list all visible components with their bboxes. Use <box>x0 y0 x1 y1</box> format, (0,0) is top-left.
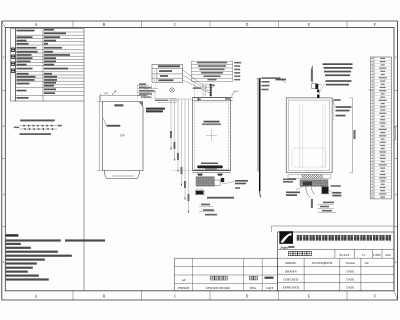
svg-text:TOP: TOP <box>119 134 125 138</box>
svg-text:D: D <box>246 295 249 299</box>
svg-text:REVISION RECORD: REVISION RECORD <box>206 287 230 290</box>
svg-text:1:1: 1:1 <box>361 253 365 257</box>
svg-text:Jingtai: Jingtai <box>280 245 289 249</box>
svg-text:DATE: DATE <box>346 286 354 290</box>
svg-text:D: D <box>246 23 249 27</box>
svg-text:DRAWN: DRAWN <box>285 269 297 273</box>
svg-text:DATE: DATE <box>346 269 354 273</box>
svg-text:JTG035Q8007D: JTG035Q8007D <box>312 261 333 265</box>
svg-text:R0.5: R0.5 <box>234 91 239 93</box>
svg-text:A0: A0 <box>365 261 369 265</box>
svg-text:(4.8): (4.8) <box>104 93 109 95</box>
svg-text:CHECKED: CHECKED <box>283 278 299 282</box>
svg-text:VERSION: VERSION <box>178 287 190 290</box>
svg-text:MODEL: MODEL <box>285 261 296 265</box>
svg-text:A: A <box>35 23 38 27</box>
svg-text:A: A <box>35 295 38 299</box>
svg-text:SCALE: SCALE <box>340 253 350 257</box>
svg-text:SING: SING <box>250 287 257 290</box>
svg-text:F: F <box>374 295 376 299</box>
svg-text:UNIT: UNIT <box>373 253 381 257</box>
svg-text:DATE: DATE <box>346 278 354 282</box>
svg-text:Version: Version <box>346 261 356 265</box>
svg-text:A0: A0 <box>182 278 186 282</box>
svg-text:mm: mm <box>386 253 391 257</box>
svg-text:APPROVED: APPROVED <box>282 286 300 290</box>
svg-text:DATE: DATE <box>266 287 273 290</box>
svg-text:F: F <box>374 23 376 27</box>
